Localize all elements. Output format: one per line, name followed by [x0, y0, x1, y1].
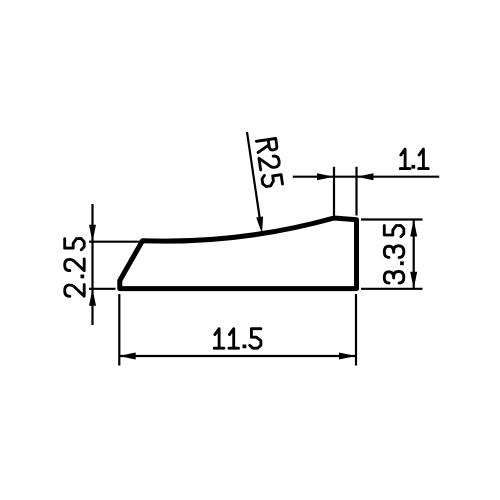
dim 2.25 extension line bottom: [89, 288, 116, 290]
dim 1.1 dimension line: [293, 176, 439, 178]
dim 1.1 extension line left: [333, 167, 335, 216]
dim 2.25 arrow up: [89, 289, 96, 306]
dim 1.1 arrow pointing right: [317, 173, 334, 180]
dim 2.25 arrow down: [89, 225, 96, 242]
dim 11.5 arrow left: [119, 353, 136, 360]
dim 3.35 dimension line: [413, 220, 415, 289]
dim 11.5 text: [214, 329, 261, 349]
dim 11.5 dimension line: [119, 355, 356, 357]
dim 11.5 arrow right: [339, 353, 356, 360]
dim 11.5 extension line left: [118, 294, 120, 366]
dim 3.35 extension line top: [361, 218, 423, 220]
dim 2.25 text: [65, 239, 85, 297]
R25 leader line: [247, 132, 260, 220]
dim 3.35 extension line bottom: [361, 288, 423, 290]
dim 1.1 text: [400, 149, 428, 169]
dim 3.35 text: [384, 226, 404, 284]
dim 1.1 arrow pointing left: [357, 173, 374, 180]
dim 11.5 extension line right: [355, 294, 357, 366]
dim 3.35 arrow up: [410, 220, 417, 237]
R25 leader arrow: [256, 217, 263, 234]
dim 2.25 extension line top: [89, 241, 140, 243]
R25 text: [256, 138, 282, 187]
profile outline (thick): [120, 218, 357, 289]
dim 3.35 arrow down: [410, 272, 417, 289]
dim 1.1 extension line right: [355, 167, 357, 216]
dim 2.25 dimension line: [91, 204, 93, 325]
